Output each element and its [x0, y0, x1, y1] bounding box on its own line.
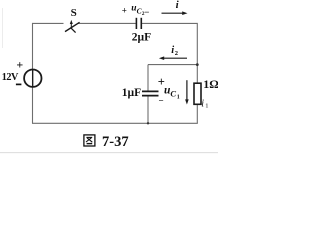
faint page rule at bottom — [0, 152, 218, 154]
capacitor C2 right plate — [140, 18, 142, 29]
capacitor C1 top plate — [142, 90, 159, 92]
wire: top wire right segment (2uF right plate to top-right corner) — [142, 22, 198, 24]
wire: 1uF branch lower (bottom plate to bottom wire) — [147, 96, 149, 123]
svg-text:1: 1 — [177, 94, 180, 100]
wire: 1uF branch upper (corner to top plate) — [147, 65, 149, 91]
svg-text:7-37: 7-37 — [102, 134, 129, 150]
wire: i2 horizontal wire — [148, 64, 197, 66]
svg-text:2µF: 2µF — [132, 32, 151, 44]
wire: bottom wire — [32, 122, 198, 124]
svg-text:−: − — [159, 95, 164, 105]
label - of source — [16, 83, 22, 85]
svg-text:+: + — [16, 58, 23, 72]
svg-text:12V: 12V — [2, 72, 19, 83]
capacitor C1 bottom plate — [142, 95, 159, 97]
node junction dot at 1uF branch and bottom wire — [147, 122, 149, 124]
wire: top wire middle segment (switch to 2uF left plate) — [78, 22, 136, 24]
svg-text:S: S — [71, 7, 77, 19]
current i2 arrow — [159, 56, 187, 60]
svg-text:+: + — [122, 5, 127, 15]
svg-text:i: i — [176, 0, 180, 11]
faint page edge line at left — [2, 8, 4, 48]
resistor R1 body — [194, 83, 201, 104]
switch S actuation arrow — [70, 20, 73, 27]
caption glyph 'tu' (CJK) drawn as paths — [84, 135, 95, 146]
wire: right vertical wire lower (resistor bottom to corner) — [196, 104, 198, 123]
current i arrow (top) — [162, 11, 188, 15]
switch S cross stroke — [70, 27, 75, 32]
wire: right vertical wire upper (corner to resistor top) — [196, 23, 198, 83]
wire: left vertical wire — [32, 23, 34, 123]
svg-text:C: C — [170, 89, 176, 99]
svg-text:i: i — [201, 98, 204, 109]
node junction dot at i2 wire and right wire — [196, 63, 199, 66]
svg-text:2: 2 — [175, 50, 178, 57]
voltage source V1 internal bar — [32, 70, 34, 88]
capacitor C2 left plate — [135, 18, 137, 29]
voltage source V1 circle — [24, 70, 41, 87]
wire: top wire left segment (corner to switch) — [33, 22, 64, 24]
svg-text:1: 1 — [205, 102, 208, 109]
current i1 arrow — [185, 80, 189, 104]
svg-text:−: − — [144, 7, 149, 17]
switch S blade — [65, 22, 80, 31]
svg-text:1Ω: 1Ω — [203, 77, 218, 91]
svg-text:1µF: 1µF — [122, 87, 141, 99]
